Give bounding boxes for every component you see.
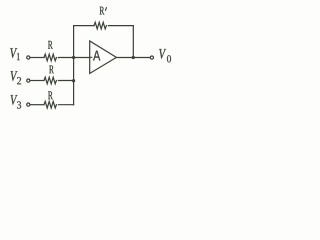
label -A gain: letter A xyxy=(93,51,100,61)
wire amp output xyxy=(116,57,150,59)
wire R to summing bus xyxy=(58,80,73,82)
junction bus/V2 dot xyxy=(72,79,75,82)
label R (V3 branch) xyxy=(48,91,53,99)
resistor R (V2 branch) xyxy=(44,77,56,84)
wire feedback top right segment xyxy=(108,25,133,27)
junction summing node dot xyxy=(72,56,75,59)
node V1 input terminal xyxy=(27,56,30,59)
wire R to summing bus elbow xyxy=(58,104,73,106)
label R' (feedback) xyxy=(100,7,105,15)
label V2 xyxy=(11,71,18,81)
junction feedback/output dot xyxy=(132,56,135,59)
label V1 xyxy=(10,48,17,58)
op-amp (gain -A) triangle xyxy=(90,41,117,74)
wire V2 terminal to R xyxy=(30,80,44,82)
resistor R (V3 branch) xyxy=(44,101,56,108)
node V0 output terminal xyxy=(150,56,153,59)
wire V3 terminal to R xyxy=(30,104,44,106)
label R (V1 branch) xyxy=(48,41,53,49)
wire summing bus vertical xyxy=(73,26,75,105)
resistor R' (feedback) xyxy=(94,22,106,29)
node V3 input terminal xyxy=(27,103,30,106)
label V3 xyxy=(11,95,18,105)
wire V1 terminal to R xyxy=(30,57,44,59)
wire R to summing node and amp input xyxy=(58,57,89,59)
resistor R (V1 branch) xyxy=(44,54,56,61)
label V0 xyxy=(159,49,166,59)
wire feedback top left segment xyxy=(74,25,94,27)
wire feedback down to output node xyxy=(132,26,134,58)
node V2 input terminal xyxy=(27,79,30,82)
label R (V2 branch) xyxy=(49,66,54,74)
label -A minus sign xyxy=(90,56,92,58)
label R' prime mark xyxy=(105,7,106,11)
